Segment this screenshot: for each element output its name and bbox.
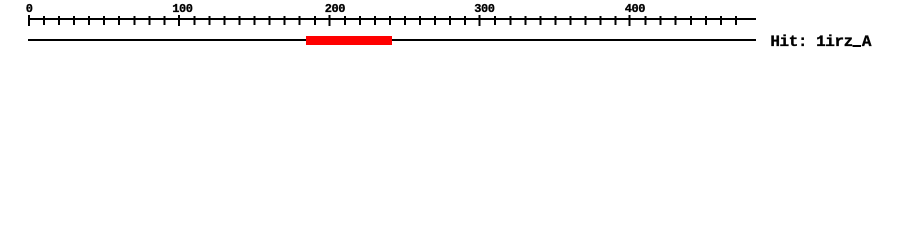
- ruler axis line: [28, 18, 756, 20]
- ruler minor ticks (every 10 residues): [43, 16, 737, 25]
- hit alignment bar (red): [306, 36, 392, 45]
- svg-text:0: 0: [26, 2, 33, 16]
- ruler major tick 200: [329, 15, 331, 26]
- svg-text:Hit: 1irz A: Hit: 1irz A: [770, 33, 872, 51]
- svg-text:100: 100: [172, 2, 192, 16]
- query sequence line: [28, 39, 756, 41]
- ruler major tick 400: [629, 15, 631, 26]
- svg-text:300: 300: [474, 2, 494, 16]
- svg-text:200: 200: [325, 2, 345, 16]
- svg-text:400: 400: [625, 2, 645, 16]
- underscore of hit name: [853, 45, 862, 47]
- ruler major tick 100: [178, 15, 180, 26]
- ruler major tick 0: [28, 15, 30, 26]
- ruler major tick 300: [479, 15, 481, 26]
